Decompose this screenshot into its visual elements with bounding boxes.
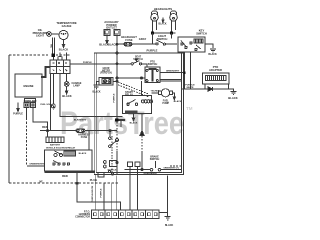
svg-text:VEHICLE SOLENOID/RELAY: VEHICLE SOLENOID/RELAY bbox=[46, 146, 76, 149]
svg-text:RELAY: RELAY bbox=[125, 93, 133, 96]
svg-text:YEL/RED: YEL/RED bbox=[151, 91, 160, 93]
svg-text:BLACK: BLACK bbox=[174, 100, 182, 103]
svg-text:GREEN/WHT: GREEN/WHT bbox=[143, 173, 158, 175]
svg-text:BLACK: BLACK bbox=[130, 122, 138, 125]
svg-text:GRAY: GRAY bbox=[139, 37, 147, 41]
svg-text:BLACK: BLACK bbox=[165, 224, 174, 227]
svg-text:BLACK: BLACK bbox=[158, 23, 166, 26]
svg-text:HARNESS: HARNESS bbox=[79, 213, 91, 216]
svg-text:ADAPTER: ADAPTER bbox=[209, 68, 222, 72]
svg-text:BLACK: BLACK bbox=[108, 42, 117, 46]
svg-text:BLACK: BLACK bbox=[59, 48, 68, 52]
svg-text:BLACK: BLACK bbox=[92, 91, 100, 94]
svg-text:2 TERM. MAG: 2 TERM. MAG bbox=[23, 99, 37, 102]
svg-text:BATTERY: BATTERY bbox=[50, 143, 61, 146]
svg-text:SWITCH: SWITCH bbox=[150, 158, 160, 161]
svg-text:PURPLE: PURPLE bbox=[147, 49, 158, 53]
svg-text:SWITCH: SWITCH bbox=[157, 37, 168, 41]
svg-text:PURPLE: PURPLE bbox=[113, 93, 115, 102]
svg-text:PLUG: PLUG bbox=[90, 178, 97, 182]
svg-text:TM: TM bbox=[186, 106, 193, 111]
svg-text:SWITCH: SWITCH bbox=[148, 63, 158, 66]
svg-text:GREEN/WHITE: GREEN/WHITE bbox=[29, 163, 45, 165]
svg-text:PURPLE: PURPLE bbox=[100, 188, 102, 197]
svg-text:FUSE: FUSE bbox=[81, 136, 88, 139]
svg-text:CONNECTOR: CONNECTOR bbox=[75, 217, 90, 219]
svg-text:BLACK: BLACK bbox=[62, 94, 71, 98]
svg-text:RED: RED bbox=[62, 174, 68, 178]
svg-text:SWITCH: SWITCH bbox=[133, 58, 143, 61]
svg-text:GREEN/WHT (?): GREEN/WHT (?) bbox=[163, 167, 179, 169]
svg-text:RED: RED bbox=[42, 125, 48, 129]
svg-text:SWITCH: SWITCH bbox=[196, 31, 207, 35]
svg-text:MODULE: MODULE bbox=[108, 170, 117, 172]
svg-text:PURPLE: PURPLE bbox=[13, 113, 23, 116]
svg-text:PUMP: PUMP bbox=[162, 103, 169, 105]
svg-text:GREEN/WHT: GREEN/WHT bbox=[166, 70, 180, 72]
svg-text:LIGHT: LIGHT bbox=[36, 34, 44, 38]
svg-text:FUSE: FUSE bbox=[125, 38, 132, 42]
svg-text:PURPLE/WHITE: PURPLE/WHITE bbox=[92, 185, 94, 202]
svg-text:(FORD LH): (FORD LH) bbox=[100, 73, 112, 75]
svg-text:HEADLIGHTS: HEADLIGHTS bbox=[154, 7, 172, 11]
svg-text:PURPLE: PURPLE bbox=[83, 62, 92, 64]
svg-text:FUEL SOL: FUEL SOL bbox=[40, 104, 51, 106]
svg-text:NF: NF bbox=[39, 180, 43, 183]
svg-text:BLACK: BLACK bbox=[79, 152, 87, 155]
svg-text:GAUGE: GAUGE bbox=[62, 24, 72, 28]
svg-text:OUTLET: OUTLET bbox=[106, 26, 117, 30]
svg-text:TAN: TAN bbox=[50, 43, 53, 48]
svg-text:BLK/WHITE: BLK/WHITE bbox=[74, 119, 87, 121]
svg-text:BLACK: BLACK bbox=[228, 96, 237, 100]
svg-text:LAMP: LAMP bbox=[73, 84, 80, 87]
svg-text:BLACK: BLACK bbox=[208, 53, 217, 56]
svg-text:ENGINE: ENGINE bbox=[24, 84, 34, 88]
svg-text:WHITE: WHITE bbox=[186, 87, 194, 89]
